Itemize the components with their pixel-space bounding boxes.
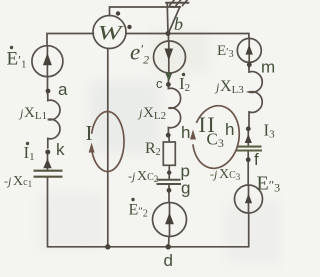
wire top right of W to corner — [127, 34, 249, 39]
mesh loop II — [190, 103, 244, 172]
wattmeter dot right — [127, 25, 131, 29]
wire through E'1 — [46, 46, 48, 77]
wire b vertical — [166, 3, 169, 34]
inductor jXL2 — [168, 87, 180, 136]
arrow in E''3 — [245, 194, 252, 204]
wire I3 node to capacitor — [247, 129, 249, 145]
arrow in e'2 (down) — [165, 49, 174, 61]
node m — [247, 62, 252, 67]
node k — [45, 150, 50, 155]
wire W top stub to tap — [110, 7, 180, 16]
svg-text:I: I — [86, 121, 93, 145]
svg-text:W: W — [98, 22, 125, 44]
svg-text:f: f — [254, 150, 259, 169]
svg-text:c: c — [156, 76, 163, 91]
svg-text:-j: -j — [4, 174, 12, 188]
node f — [246, 157, 251, 162]
node g — [167, 188, 172, 193]
svg-text:m: m — [261, 58, 275, 77]
node a — [46, 89, 51, 94]
mesh loop I — [92, 112, 124, 172]
node bottom junction — [105, 244, 110, 249]
arrow in E'3 — [246, 45, 253, 55]
wire left branch bottom — [47, 178, 49, 247]
svg-text:b: b — [174, 14, 183, 34]
loop I arrowhead — [89, 143, 95, 153]
svg-text:-j: -j — [210, 167, 218, 181]
capacitor -jXC3 — [236, 147, 262, 151]
wire e'2 bottom to node c — [167, 73, 169, 85]
wire E''2 to d — [168, 237, 171, 247]
arrow in E''2 — [165, 213, 174, 225]
source E'3 circle — [237, 38, 261, 62]
inductor jXL1 — [48, 95, 60, 149]
svg-text:h: h — [225, 120, 234, 139]
wire through E''3 — [248, 185, 250, 213]
wire k to capacitor — [47, 151, 49, 171]
svg-text:k: k — [56, 140, 65, 159]
node h — [166, 133, 171, 138]
capacitor -jXC2 — [157, 180, 182, 184]
source e'2 circle — [154, 41, 186, 73]
bottom wire — [48, 246, 249, 248]
wire left branch below E'1 — [47, 77, 49, 95]
hatch bus lower segment — [170, 6, 180, 8]
source E''3 circle — [235, 185, 263, 213]
svg-text:d: d — [164, 251, 173, 270]
node I3 top — [246, 126, 251, 131]
wattmeter dot top — [116, 11, 120, 15]
wire through e'2 — [168, 41, 170, 73]
wire p cap to g — [168, 185, 170, 203]
hatch ticks — [170, 0, 176, 6]
svg-text:h: h — [181, 123, 190, 142]
source E'1 circle — [32, 46, 63, 77]
svg-text:-j: -j — [128, 169, 136, 183]
wire cap to f to E''3 — [247, 152, 249, 186]
capacitor -jXc1 — [34, 171, 63, 177]
wire E'3 bottom to m — [248, 62, 250, 68]
wire top left horizontal — [47, 34, 94, 47]
wattmeter W circle — [93, 16, 126, 49]
current arrow I1 — [43, 159, 51, 169]
node p — [167, 170, 171, 174]
wire through E''2 — [169, 203, 171, 236]
wire E''3 to bottom — [248, 213, 250, 247]
current arrow I2 (green) — [165, 73, 172, 82]
source E''2 circle — [153, 203, 187, 237]
hatch bus top — [166, 2, 189, 4]
wire h to R2 — [168, 135, 171, 142]
wire W bottom long vertical — [107, 48, 109, 247]
node c — [166, 82, 171, 87]
inductor jXL3 — [249, 67, 262, 129]
resistor R2 — [163, 142, 175, 165]
wire R2 to p — [168, 165, 170, 178]
loop II arrowhead — [190, 130, 196, 140]
arrow in E'1 — [43, 53, 52, 65]
wire through E'3 — [248, 39, 250, 65]
current arrow I3 — [245, 134, 252, 143]
svg-text:g: g — [181, 179, 190, 198]
node b — [166, 31, 171, 36]
svg-text:a: a — [58, 80, 68, 99]
wire b diagonal — [168, 7, 180, 34]
wire b to e'2 top — [167, 34, 169, 42]
node d — [166, 244, 171, 249]
